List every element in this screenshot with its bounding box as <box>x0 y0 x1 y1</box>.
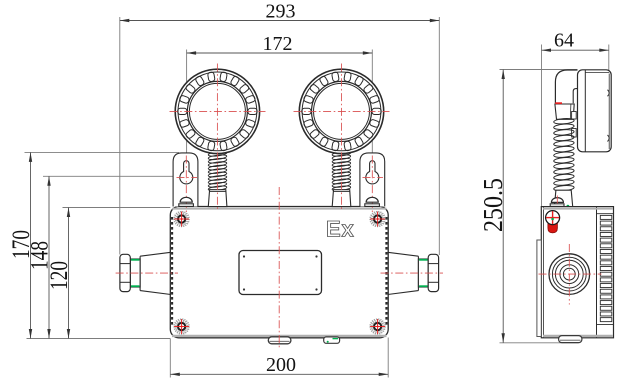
gooseneck lower fitting right <box>332 190 351 207</box>
svg-text:64: 64 <box>554 30 574 52</box>
mounting bracket right keyhole slot <box>366 161 379 184</box>
dimension 293 extension line right <box>438 17 440 255</box>
dimension 120 extension line <box>63 207 171 209</box>
enclosure corner screw bottom-right <box>370 319 385 334</box>
cable gland right centerline <box>381 272 444 274</box>
dimension 172 extension line left <box>186 50 188 173</box>
side gooseneck collar red gasket line <box>555 102 562 104</box>
side lid serration ribs <box>600 215 612 219</box>
cable gland right hex cap <box>428 254 438 291</box>
bottom accessory tab with green marks <box>324 337 340 343</box>
mounting bracket right clamp screw dome <box>366 197 378 202</box>
bottom handle tab <box>268 337 291 344</box>
dimension 293 line <box>120 20 440 22</box>
cable gland left neck <box>130 259 140 287</box>
side lamp head lens marks <box>608 90 610 142</box>
gooseneck lower fitting left <box>208 190 227 207</box>
cable gland left body <box>140 252 171 294</box>
dimension 293 extension line left <box>119 17 121 255</box>
dimension 120 line <box>68 208 70 339</box>
side enclosure body <box>541 207 613 338</box>
side enclosure lid seam bottom <box>543 335 613 337</box>
enclosure vertical centerline <box>278 187 280 348</box>
gooseneck spring left <box>208 151 227 192</box>
enclosure flame-path serration right edge <box>385 217 387 327</box>
cable gland right body <box>388 252 419 294</box>
mounting bracket left clamp screw dome <box>180 197 192 202</box>
mounting bracket left keyhole slot <box>180 161 193 184</box>
dimension 148 extension line <box>43 175 181 177</box>
enclosure lid seam top <box>172 208 387 210</box>
lamp head left centerline vertical <box>216 64 218 212</box>
side fitting centerline <box>556 196 558 210</box>
dimension 172 line <box>187 52 373 54</box>
mounting bracket right plate <box>360 153 385 207</box>
side mounting bracket edge strip <box>537 240 541 337</box>
dimension 200 extension line right <box>387 338 389 378</box>
cable gland left centerline <box>116 272 178 274</box>
mounting bracket left centerline vertical <box>185 156 187 213</box>
dimension 200 extension line left <box>169 339 171 378</box>
svg-text:172: 172 <box>263 33 293 55</box>
enclosure lid seam bottom <box>172 335 387 337</box>
dimension 170 line <box>30 152 32 338</box>
mounting bracket right centerline vertical <box>371 156 373 213</box>
baseline extension at box bottom <box>27 338 171 340</box>
dimension 250.5 line <box>502 70 504 343</box>
side gooseneck lower fitting <box>554 190 572 206</box>
lamp head left ring <box>175 69 259 153</box>
dimension 250.5 extension line bottom <box>500 342 579 344</box>
side mounting foot <box>559 336 582 343</box>
side lid flange lines <box>597 213 614 215</box>
lamp head left centerline horizontal <box>170 110 266 112</box>
dimension 250.5 extension line top <box>500 69 578 71</box>
dimension 64 extension line right <box>608 45 610 153</box>
mounting bracket left plate <box>173 153 198 207</box>
enclosure corner screw bottom-left <box>174 319 189 334</box>
cable gland left hex cap <box>120 254 130 291</box>
cable gland right neck <box>418 259 428 287</box>
side lamp head body <box>578 70 612 152</box>
dimension 64 line <box>542 49 609 51</box>
nameplate <box>239 251 322 295</box>
enclosure corner screw top-right <box>370 212 385 227</box>
svg-text:293: 293 <box>266 1 296 23</box>
side gooseneck arm <box>555 70 577 103</box>
lamp head right centerline horizontal <box>294 110 390 112</box>
svg-text:120: 120 <box>46 261 73 290</box>
side cable gland concentric circles <box>549 254 590 295</box>
enclosure corner screw top-left <box>174 212 189 227</box>
svg-text:250.5: 250.5 <box>478 178 508 232</box>
enclosure flame-path serration left edge <box>171 217 173 327</box>
mounting bracket right keyhole centerline horizontal <box>363 176 384 178</box>
svg-text:Ex: Ex <box>326 217 355 242</box>
side sealing screw head <box>548 221 558 233</box>
svg-text:200: 200 <box>266 354 296 376</box>
side fitting green dot <box>567 205 570 208</box>
dimension 64 extension line left <box>541 45 543 208</box>
gooseneck spring right <box>332 151 351 192</box>
dimension 170 extension line <box>25 151 180 153</box>
mounting bracket left keyhole centerline horizontal <box>177 176 198 178</box>
side gooseneck spring <box>554 118 575 125</box>
side gooseneck collar <box>555 104 574 119</box>
dimension 200 line <box>170 373 388 375</box>
lamp head right centerline vertical <box>341 64 343 212</box>
side gland centerline horizontal <box>539 273 602 275</box>
side bracket clamp screw dome <box>551 198 563 203</box>
dimension 172 extension line right <box>371 50 373 173</box>
side enclosure lid seam top <box>543 208 613 210</box>
side gland centerline vertical <box>568 244 570 305</box>
side gooseneck clamp tabs <box>572 112 577 120</box>
dimension 148 line <box>48 176 50 338</box>
lamp head right ring <box>299 69 383 153</box>
enclosure box body <box>170 207 388 338</box>
